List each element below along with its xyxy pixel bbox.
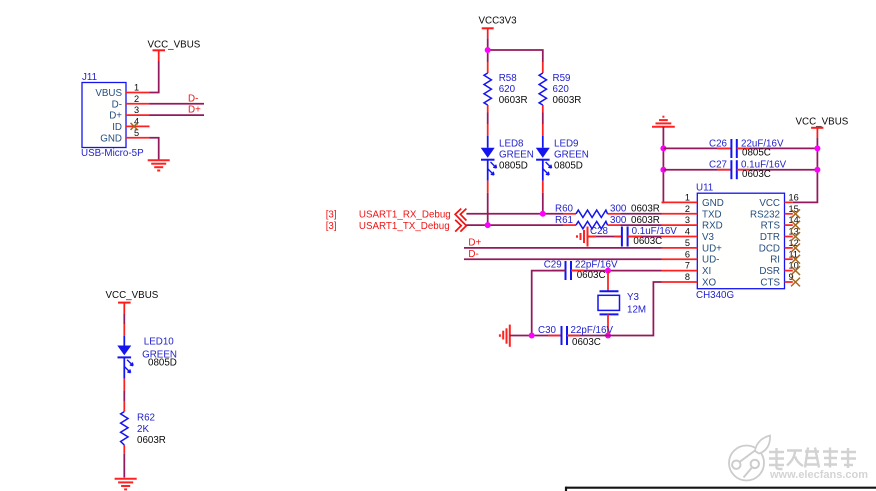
J11 pin 4	[126, 117, 150, 127]
svg-text:620: 620	[499, 84, 516, 95]
junction vbus / C27	[814, 167, 820, 173]
junction bus / C26	[660, 145, 666, 151]
wire VCC3V3 stem	[487, 38, 489, 62]
svg-text:3: 3	[685, 215, 690, 225]
svg-text:D-: D-	[188, 93, 198, 104]
svg-text:C28: C28	[590, 226, 609, 237]
wire RX net to R60	[466, 213, 563, 215]
wire net D+ to U11 UD+	[464, 247, 662, 249]
svg-text:XO: XO	[702, 278, 717, 289]
U11 pin 6 UD-	[662, 249, 720, 265]
svg-text:RTS: RTS	[761, 221, 781, 232]
capacitor C27	[663, 160, 817, 180]
svg-text:5: 5	[685, 238, 690, 248]
svg-text:0603R: 0603R	[499, 95, 528, 106]
svg-text:V3: V3	[702, 232, 715, 243]
capacitor C28	[590, 226, 677, 247]
svg-text:VCC_VBUS: VCC_VBUS	[796, 116, 849, 127]
svg-text:[3]: [3]	[326, 221, 337, 232]
wire TX net to R61	[466, 224, 563, 226]
svg-text:3: 3	[134, 105, 139, 115]
svg-text:620: 620	[553, 84, 570, 95]
U11 pin 13 DTR	[760, 227, 799, 243]
svg-text:12M: 12M	[627, 304, 646, 315]
svg-text:0805D: 0805D	[499, 161, 528, 172]
svg-text:ID: ID	[112, 122, 122, 133]
U11 pin 14 RTS	[761, 215, 799, 231]
svg-text:D-: D-	[468, 249, 478, 260]
J11 pin 3	[126, 105, 150, 115]
J11 pin 1	[126, 83, 150, 93]
U11 pin 9 CTS	[760, 272, 793, 288]
wire branch to R59	[488, 50, 543, 62]
svg-text:D+: D+	[188, 105, 201, 116]
svg-text:D+: D+	[109, 111, 122, 122]
power VCC_VBUS at U11	[796, 116, 849, 138]
wire VCC_VBUS down to U11 VCC	[793, 138, 818, 202]
svg-text:DCD: DCD	[759, 243, 780, 254]
wire R58 to LED8	[487, 113, 489, 125]
U11 pin 3 RXD	[662, 215, 723, 231]
svg-text:2K: 2K	[137, 424, 149, 435]
svg-text:0603R: 0603R	[553, 95, 582, 106]
svg-text:USART1_RX_Debug: USART1_RX_Debug	[359, 210, 451, 221]
junction C29 branch / C30 wire	[529, 333, 535, 339]
crystal Y3	[598, 271, 646, 336]
svg-text:0603C: 0603C	[572, 337, 601, 348]
sideways ground at C28	[577, 227, 588, 247]
svg-text:D+: D+	[468, 238, 481, 249]
wire R60 to U11 TXD	[621, 213, 662, 215]
wire R62 to ground	[123, 454, 125, 478]
capacitor C26	[663, 138, 817, 158]
U11 pin 1 GND	[662, 193, 724, 209]
wire R61 to U11 RXD	[621, 224, 662, 226]
svg-text:2: 2	[134, 94, 139, 104]
LED9	[536, 124, 589, 193]
svg-text:VCC: VCC	[759, 198, 780, 209]
LED8	[481, 124, 534, 193]
J11 pin 5	[126, 128, 150, 138]
svg-text:0603R: 0603R	[137, 435, 166, 446]
svg-text:VBUS: VBUS	[95, 88, 122, 99]
svg-text:UD+: UD+	[702, 243, 722, 254]
wire C29 to U11 XI	[571, 270, 662, 272]
net label D-	[188, 93, 198, 104]
svg-text:VCC3V3: VCC3V3	[479, 16, 518, 27]
svg-text:USART1_TX_Debug: USART1_TX_Debug	[359, 221, 450, 232]
svg-text:0603C: 0603C	[577, 270, 606, 281]
svg-text:C26: C26	[709, 138, 728, 149]
svg-text:CH340G: CH340G	[696, 290, 734, 301]
svg-text:U11: U11	[696, 183, 713, 194]
svg-text:R58: R58	[499, 73, 518, 84]
wire J11 pin5 to ground	[150, 138, 159, 160]
svg-text:LED10: LED10	[144, 336, 175, 347]
svg-text:TXD: TXD	[702, 209, 722, 220]
resistor R60	[555, 204, 660, 218]
junction vbus / C26	[814, 145, 820, 151]
wire J11 pin1 to VCC_VBUS	[150, 61, 159, 93]
svg-text:R61: R61	[555, 215, 573, 226]
wire R59 to LED9	[542, 113, 544, 125]
inverted ground above U11	[652, 117, 675, 127]
junction Y3 bottom / C30 wire	[605, 333, 611, 339]
svg-text:www.elecfans.com: www.elecfans.com	[769, 469, 868, 481]
sheet entry port USART1_RX_Debug	[326, 209, 467, 221]
U11 pin 12 DCD	[759, 238, 799, 254]
wire C29 left corner down	[532, 271, 566, 336]
svg-text:0603C: 0603C	[742, 169, 771, 180]
ground at J11	[148, 160, 170, 170]
svg-text:6: 6	[685, 249, 690, 259]
svg-text:GREEN: GREEN	[554, 149, 589, 160]
svg-text:4: 4	[685, 227, 690, 237]
net label D+ (U11 side)	[468, 238, 481, 249]
sideways ground at C30	[500, 325, 510, 347]
connector J11	[81, 72, 144, 159]
wire LED10 to R62	[123, 391, 125, 401]
U11 pin 11 RI	[770, 249, 798, 265]
svg-text:R62: R62	[137, 412, 155, 423]
watermark text 电子发烧友 (simulated strokes)	[769, 448, 856, 470]
svg-text:GND: GND	[702, 198, 724, 209]
junction LED9 / RX wire	[540, 211, 546, 217]
wire LED8 down to RXD net	[487, 193, 489, 225]
svg-text:C30: C30	[538, 325, 557, 336]
net label D+	[188, 105, 201, 116]
svg-text:7: 7	[685, 261, 690, 271]
ground at R62	[115, 479, 137, 490]
IC U11 CH340G	[696, 183, 785, 302]
U11 pin 5 UD+	[662, 238, 723, 254]
svg-text:0603C: 0603C	[633, 236, 662, 247]
U11 pin 4 V3	[662, 227, 715, 243]
svg-text:DSR: DSR	[759, 266, 780, 277]
svg-text:UD-: UD-	[702, 255, 719, 266]
U11 pin 10 DSR	[759, 261, 798, 277]
svg-text:1: 1	[685, 193, 690, 203]
capacitor C29	[544, 259, 618, 281]
svg-text:VCC_VBUS: VCC_VBUS	[148, 40, 201, 51]
svg-text:Y3: Y3	[627, 292, 640, 303]
U11 pin 8 XO	[662, 272, 717, 288]
svg-text:R59: R59	[553, 73, 571, 84]
svg-text:VCC_VBUS: VCC_VBUS	[106, 290, 159, 301]
no-connect X on J11 pin 4	[131, 123, 138, 130]
junction bus / C27	[660, 167, 666, 173]
LED10	[117, 324, 177, 391]
power VCC_VBUS at LED10	[106, 290, 159, 314]
svg-text:RXD: RXD	[702, 221, 723, 232]
junction Y3 top / XI wire	[605, 268, 611, 274]
svg-text:8: 8	[685, 272, 690, 282]
wire ground to C30	[510, 335, 562, 337]
wire ground to C28	[588, 236, 622, 238]
power VCC_VBUS at J11	[148, 40, 201, 62]
svg-text:C27: C27	[709, 160, 727, 171]
svg-text:USB-Micro-5P: USB-Micro-5P	[81, 148, 144, 159]
wire J11 pin2 (net D-)	[150, 103, 205, 105]
resistor R62	[121, 401, 166, 454]
svg-text:DTR: DTR	[760, 232, 780, 243]
U11 pin 15 RS232	[750, 204, 799, 220]
svg-text:XI: XI	[702, 266, 711, 277]
junction LED8 / TX wire	[485, 222, 491, 228]
no-connect X marks pins 15-9	[791, 209, 800, 286]
svg-text:2: 2	[685, 204, 690, 214]
resistor R58	[484, 62, 528, 113]
resistor R59	[539, 62, 581, 113]
U11 pin 7 XI	[662, 261, 712, 277]
svg-text:1: 1	[134, 83, 139, 93]
watermark text www.elecfans.com	[769, 469, 868, 481]
svg-text:LED9: LED9	[554, 138, 579, 149]
watermark logo elecfans	[729, 436, 770, 481]
wire J11 pin3 (net D+)	[150, 114, 205, 116]
wire LED9 down to TXD net	[542, 193, 544, 214]
svg-text:RS232: RS232	[750, 209, 780, 220]
svg-text:0805D: 0805D	[148, 357, 177, 368]
title block border corner	[566, 487, 876, 491]
sheet entry port USART1_TX_Debug	[326, 220, 467, 232]
resistor R61	[555, 215, 660, 229]
svg-text:0805C: 0805C	[742, 148, 771, 159]
net label D- (U11 side)	[468, 249, 478, 260]
svg-text:LED8: LED8	[499, 138, 524, 149]
wire C28 to U11 V3	[628, 236, 662, 238]
junction at VCC3V3 branch	[485, 47, 491, 53]
wire ground bus down to U11 GND	[662, 127, 664, 203]
svg-text:0805D: 0805D	[554, 161, 583, 172]
svg-text:16: 16	[789, 193, 799, 203]
wire VCC_VBUS to LED10	[123, 314, 125, 324]
U11 pin 2 TXD	[662, 204, 722, 220]
svg-text:22pF/16V: 22pF/16V	[575, 259, 618, 270]
svg-text:CTS: CTS	[760, 278, 780, 289]
svg-text:[3]: [3]	[326, 210, 337, 221]
svg-text:R60: R60	[555, 204, 574, 215]
svg-text:RI: RI	[770, 255, 780, 266]
svg-text:GREEN: GREEN	[499, 149, 534, 160]
svg-text:D-: D-	[112, 99, 122, 110]
svg-text:C29: C29	[544, 259, 562, 270]
svg-text:GND: GND	[100, 133, 122, 144]
wire C30 to U11 XO	[567, 282, 662, 336]
power VCC3V3	[479, 16, 518, 39]
J11 pin 2	[126, 94, 150, 104]
svg-text:J11: J11	[82, 72, 97, 83]
capacitor C30	[538, 325, 613, 348]
wire net D- to U11 UD-	[464, 258, 662, 260]
U11 pin 16 VCC	[759, 193, 798, 209]
